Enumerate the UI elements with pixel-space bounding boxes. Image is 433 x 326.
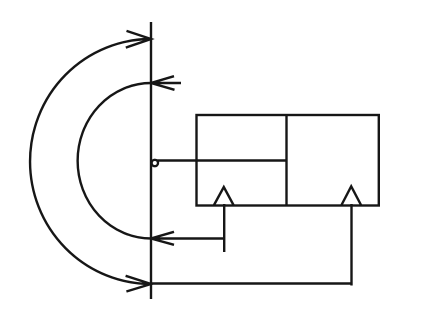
valve position divider <box>285 115 287 206</box>
arrow stub pointing left into trunk at upper node <box>151 76 181 90</box>
arrowhead at bottom end of outer arc (pointing right into trunk) <box>126 276 151 292</box>
junction circle on trunk at mid tap <box>152 160 158 166</box>
pilot triangle left (open, apex up) <box>214 187 234 205</box>
wire: pilot stem 1 <box>223 204 225 252</box>
outer feedback arc (left semicircle) <box>30 39 151 284</box>
wire: horizontal link from pilot stem 1 to trunk with left arrowhead <box>151 232 224 245</box>
pilot triangle right (open, apex up) <box>342 186 362 205</box>
wire: pilot stem 2 <box>350 204 352 286</box>
wire: bottom horizontal link from trunk to pilot stem 2 <box>151 282 352 284</box>
arrowhead at top end of outer arc (pointing right into trunk) <box>126 31 151 48</box>
valve body rectangle <box>197 115 379 206</box>
inner feedback arc (left semicircle) <box>78 83 151 239</box>
wire: main vertical trunk line <box>150 22 152 299</box>
wire: mid horizontal tap into valve body <box>157 159 287 161</box>
